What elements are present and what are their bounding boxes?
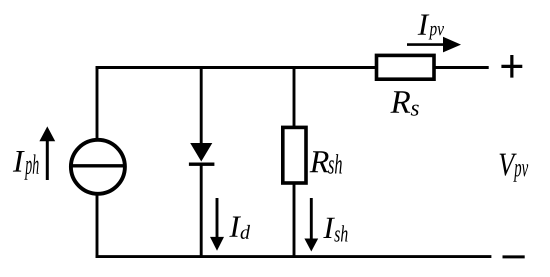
- arrow: shunt current Ish (down): [304, 198, 318, 252]
- wire: top bus right segment (Rs to + terminal): [433, 66, 489, 69]
- wire: bottom bus (ground return rail): [96, 255, 492, 258]
- diode D cathode bar: [189, 163, 215, 166]
- label Iph subscript ph: [24, 154, 38, 179]
- resistor Rs (series) body: [377, 55, 435, 79]
- label Ipv: [418, 15, 430, 35]
- wire: top bus, node A (left segment from left branch to Rs): [96, 66, 378, 69]
- current source Iph internal bar: [71, 164, 124, 167]
- label Rsh subscript sh: [328, 154, 342, 174]
- label Vpv subscript pv: [513, 164, 528, 182]
- wire: diode branch upper segment: [200, 66, 203, 146]
- resistor Rsh (shunt) body: [283, 127, 306, 183]
- label Rs subscript s: [411, 105, 419, 116]
- label Rsh: [310, 151, 329, 172]
- arrow: output current Ipv (right): [407, 37, 461, 53]
- label Ipv subscript pv: [429, 26, 444, 40]
- wire: shunt branch lower segment: [293, 182, 296, 258]
- wire: left branch lower (current source to bottom bus): [96, 194, 99, 258]
- wire: left branch upper (current source to top bus): [96, 66, 99, 140]
- label Ish subscript sh: [334, 225, 347, 242]
- wire: diode branch lower segment: [200, 164, 203, 258]
- diode D (anode triangle): [190, 143, 212, 162]
- current source Iph (circle body): [71, 140, 125, 194]
- label Ish: [323, 218, 335, 238]
- arrow: diode current Id (down): [210, 198, 224, 251]
- label Iph: [13, 151, 25, 172]
- wire: shunt branch upper segment: [293, 66, 296, 128]
- arrow: photocurrent direction (up) beside source: [39, 126, 55, 180]
- terminal: + (positive output): [501, 55, 522, 78]
- terminal: - (negative output): [503, 255, 525, 258]
- label Rs: [390, 91, 410, 113]
- label Id subscript d: [241, 225, 250, 239]
- label Id: [229, 217, 241, 237]
- label Vpv: [500, 154, 517, 176]
